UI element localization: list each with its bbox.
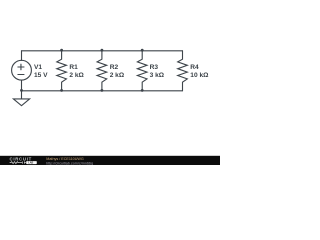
resistor R2 xyxy=(97,51,107,91)
ground xyxy=(13,91,29,106)
resistor R1 xyxy=(57,51,67,91)
svg-text:2 kΩ: 2 kΩ xyxy=(110,72,125,79)
wire bottom bus xyxy=(22,90,183,92)
svg-text:R2: R2 xyxy=(110,64,119,71)
voltage source V1 xyxy=(12,60,32,80)
svg-text:3 kΩ: 3 kΩ xyxy=(150,72,165,79)
node top R2 xyxy=(101,49,104,52)
resistor R4 xyxy=(178,51,188,91)
svg-text:10 kΩ: 10 kΩ xyxy=(190,72,209,79)
wire V1 top lead xyxy=(21,51,23,61)
node bottom R2 xyxy=(101,89,104,92)
logo CircuitLab xyxy=(10,156,37,164)
node bottom ground xyxy=(20,89,23,92)
svg-text:V1: V1 xyxy=(34,64,42,71)
svg-text:R3: R3 xyxy=(150,64,159,71)
node top R1 xyxy=(60,49,63,52)
svg-text:2 kΩ: 2 kΩ xyxy=(69,72,84,79)
svg-text:http://circuitlab.com/c/mn66g: http://circuitlab.com/c/mn66g xyxy=(46,161,93,165)
node bottom R1 xyxy=(60,89,63,92)
svg-text:R1: R1 xyxy=(69,64,78,71)
svg-text:R4: R4 xyxy=(190,64,199,71)
node top R3 xyxy=(141,49,144,52)
svg-text:15 V: 15 V xyxy=(34,72,48,79)
wire V1 bottom lead xyxy=(21,80,23,91)
svg-text:Mathys / ECE110UWG: Mathys / ECE110UWG xyxy=(46,157,84,161)
node bottom R3 xyxy=(141,89,144,92)
svg-text:LAB: LAB xyxy=(28,162,33,165)
footer bar xyxy=(0,156,220,165)
resistor R3 xyxy=(137,51,147,91)
wire top bus xyxy=(22,50,183,52)
